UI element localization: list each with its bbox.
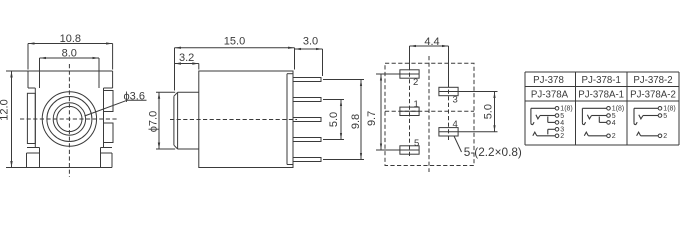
schematic PJ-378-2 sleeve contact 1(8)	[634, 107, 658, 109]
dim 12.0 height (view 1)	[11, 71, 13, 168]
schematic PJ-378-1 tip contact 2	[588, 135, 606, 137]
svg-text:5-(2.2×0.8): 5-(2.2×0.8)	[464, 145, 522, 159]
dim 8.0 inner width (view 1)	[40, 57, 100, 59]
svg-text:ϕ3.6: ϕ3.6	[124, 90, 145, 102]
svg-text:9.7: 9.7	[366, 111, 378, 126]
svg-text:5.0: 5.0	[483, 104, 495, 119]
dim phi 7.0 (barrel diameter)	[158, 92, 160, 149]
svg-text:3.0: 3.0	[303, 36, 318, 48]
schematic PJ-378 switch contact 3	[548, 128, 555, 130]
svg-text:12.0: 12.0	[0, 99, 11, 120]
schematic PJ-378 tip contact 2	[537, 135, 555, 137]
schematic PJ-378 ring contact 5	[540, 115, 555, 117]
dim 9.7 pad span (view 3)	[380, 74, 382, 150]
pcb center line vertical	[428, 56, 430, 172]
pcb outline (dashed)	[385, 63, 474, 165]
front view jack body outline	[28, 70, 113, 72]
svg-text:PJ-378-1: PJ-378-1	[582, 75, 621, 86]
svg-text:1: 1	[414, 99, 419, 110]
svg-text:5.0: 5.0	[328, 112, 340, 127]
svg-text:2: 2	[663, 133, 667, 140]
svg-text:PJ-378-2: PJ-378-2	[633, 75, 672, 86]
side view body outline	[199, 71, 293, 168]
svg-text:15.0: 15.0	[224, 36, 245, 48]
schematic PJ-378-2 ring contact 5	[643, 115, 658, 117]
dim 3.0 pin length	[295, 48, 323, 50]
dim 5.0 pin spacing (view 2)	[340, 100, 342, 140]
dim 5.0 pad spacing (view 3)	[494, 92, 496, 132]
svg-text:1(8): 1(8)	[612, 106, 624, 113]
svg-text:10.8: 10.8	[60, 33, 81, 45]
schematic PJ-378-1 switch contact 4	[607, 121, 611, 125]
pcb right column axis	[448, 83, 450, 140]
front view center lines (dashed)	[68, 64, 70, 177]
dim 4.4 column spacing (view 3)	[410, 45, 449, 47]
svg-text:5: 5	[663, 113, 667, 120]
pad 1	[400, 107, 419, 115]
svg-text:3.2: 3.2	[179, 52, 194, 64]
side view pins	[293, 78, 321, 82]
schematic PJ-378-2 tip contact 2	[641, 135, 659, 137]
pad extension lines	[376, 73, 400, 75]
label phi 3.6 with leader	[85, 100, 128, 116]
pad 2	[400, 70, 419, 78]
svg-text:8.0: 8.0	[62, 48, 77, 60]
svg-text:4: 4	[453, 119, 458, 130]
svg-text:ϕ7.0: ϕ7.0	[148, 111, 160, 132]
svg-text:2: 2	[560, 133, 564, 140]
schematic PJ-378 switch contact 4	[555, 121, 559, 125]
svg-text:1(8): 1(8)	[560, 106, 572, 113]
part number table grid	[525, 71, 679, 73]
label 5-(2.2x0.8) with leader	[454, 136, 462, 152]
svg-text:PJ-378A: PJ-378A	[531, 90, 569, 101]
schematic PJ-378-1 ring contact 5	[592, 115, 607, 117]
svg-text:4.4: 4.4	[424, 36, 439, 48]
dim 9.8 pin span (view 2)	[360, 80, 362, 160]
schematic PJ-378 sleeve contact 1(8)	[531, 107, 555, 109]
schematic PJ-378-1 sleeve contact 1(8)	[582, 107, 606, 109]
side view barrel	[173, 96, 175, 145]
svg-text:PJ-378A-2: PJ-378A-2	[630, 90, 676, 101]
pad 4	[439, 128, 458, 136]
svg-text:5: 5	[414, 138, 419, 149]
front view left side tab	[27, 93, 35, 143]
svg-text:PJ-378: PJ-378	[533, 75, 564, 86]
front view bottom section	[27, 147, 40, 149]
pcb left column axis	[409, 66, 411, 158]
pcb center line horizontal	[385, 110, 474, 112]
svg-text:PJ-378A-1: PJ-378A-1	[578, 90, 624, 101]
pad 5	[400, 146, 419, 154]
svg-text:2: 2	[413, 77, 418, 88]
svg-text:9.8: 9.8	[350, 114, 362, 129]
svg-text:3: 3	[453, 95, 458, 106]
front view right side tab upper	[104, 91, 114, 112]
svg-text:2: 2	[612, 133, 616, 140]
front view concentric circles (jack opening)	[42, 92, 96, 146]
dim 10.8 overall width (view 1)	[28, 43, 113, 45]
dim 3.2 barrel protrusion	[175, 63, 199, 65]
svg-text:4: 4	[612, 120, 616, 127]
dim 15.0 body length (view 2)	[175, 47, 295, 49]
svg-text:1(8): 1(8)	[663, 106, 675, 113]
pad 3	[439, 87, 458, 95]
front view right side tab lower	[104, 123, 114, 143]
side view rear cover line	[286, 74, 288, 165]
side view center line (dashed)	[170, 119, 297, 121]
